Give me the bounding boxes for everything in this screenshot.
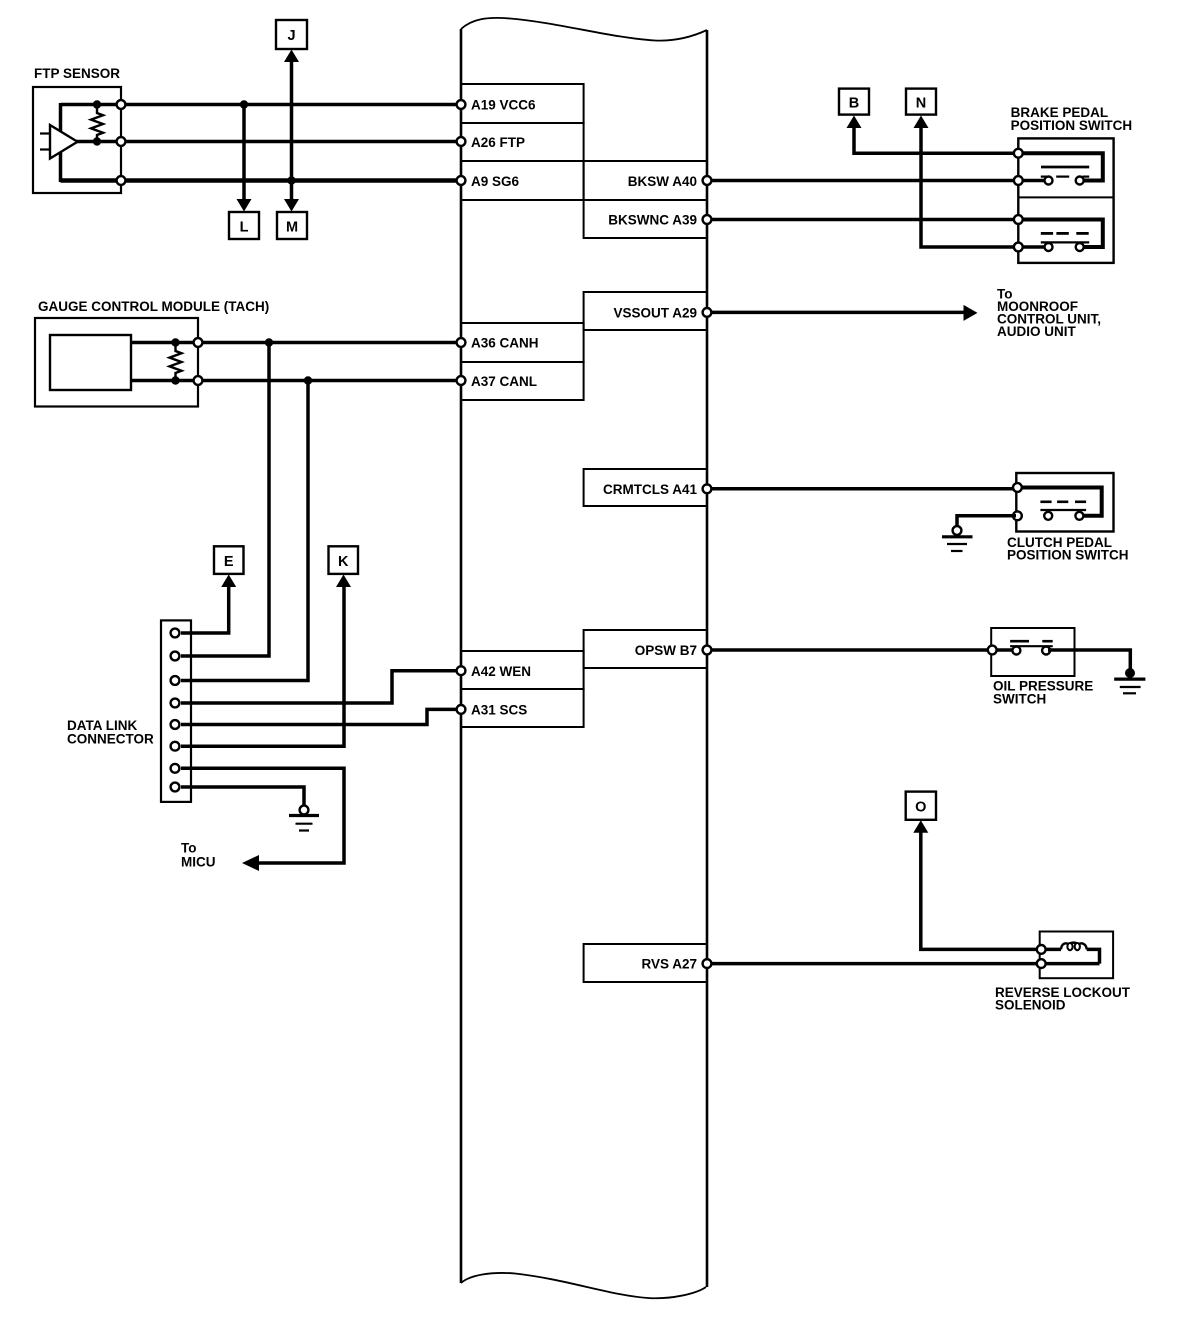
node PCM pin A27 (703, 959, 712, 968)
svg-text:A9 SG6: A9 SG6 (471, 174, 520, 189)
node FTP pin 3 (117, 176, 126, 185)
svg-text:A31 SCS: A31 SCS (471, 703, 527, 718)
junction dot CANL tap (304, 376, 312, 384)
wire connector B to brake switch pin 1 (854, 127, 1016, 153)
wire to connector L (drop from A19) (242, 105, 246, 201)
terminal box BKSWNC A39 (584, 200, 707, 238)
wire A37 CANL (gauge module to PCM) (131, 379, 458, 383)
svg-text:FTP SENSOR: FTP SENSOR (34, 66, 120, 81)
svg-text:J: J (287, 28, 295, 44)
node DLC pin 4 (171, 699, 180, 708)
junction dot CANH tap (265, 338, 273, 346)
svg-text:VSSOUT A29: VSSOUT A29 (613, 306, 697, 321)
terminal box A36 CANH (461, 323, 584, 362)
terminal box A42 WEN (461, 651, 584, 689)
node PCM pin A19 (457, 100, 466, 109)
connector K (329, 546, 359, 587)
connector M (277, 199, 307, 239)
terminal box A9 SG6 (461, 161, 584, 200)
svg-text:To: To (181, 841, 197, 856)
svg-text:A42 WEN: A42 WEN (471, 664, 531, 679)
PCM connector column (torn-edge outline) (461, 18, 707, 1298)
FTP sensor box (33, 66, 121, 193)
svg-text:OPSW B7: OPSW B7 (635, 643, 697, 658)
svg-text:K: K (338, 554, 349, 570)
wire clutch switch pin 2 to ground (957, 516, 1016, 526)
node PCM pin A29 (703, 308, 712, 317)
wire FTP internal supply-to-ground vertical (59, 103, 63, 182)
ground (DLC) (289, 806, 319, 831)
wire CANH tap to DLC pin 2 (181, 343, 269, 657)
wire VSSOUT A29 to moonroof/audio (710, 311, 965, 315)
arrow to moonroof (964, 305, 978, 321)
wire A36 CANH (gauge module to PCM) (131, 341, 458, 345)
label To MICU (181, 841, 216, 870)
node DLC pin 3 (171, 676, 180, 685)
node gauge pin CANL (194, 376, 203, 385)
wire BKSW A40 to brake switch (710, 179, 1046, 183)
connector O (906, 792, 936, 833)
node DLC pin 2 (171, 652, 180, 661)
svg-text:SOLENOID: SOLENOID (995, 998, 1066, 1013)
wire CANL tap to DLC pin 3 (181, 381, 308, 681)
wire A19 VCC6 (FTP sensor to PCM) (61, 103, 459, 107)
svg-text:E: E (224, 554, 234, 570)
node DLC pin 6 (171, 742, 180, 751)
terminal box OPSW B7 (584, 630, 707, 668)
svg-text:A36 CANH: A36 CANH (471, 336, 539, 351)
node PCM pin B7 (703, 646, 712, 655)
wire DLC pin 4 to A42 WEN (181, 671, 458, 703)
node DLC pin 8 (171, 783, 180, 792)
node PCM pin A36 (457, 338, 466, 347)
terminal box BKSW A40 (584, 161, 707, 200)
node PCM pin A26 (457, 137, 466, 146)
node PCM pin A40 (703, 176, 712, 185)
wire DLC pin 6 to connector K (181, 586, 344, 746)
node FTP pin 1 (117, 100, 126, 109)
node DLC pin 7 (171, 764, 180, 773)
connector B (839, 89, 869, 128)
node PCM pin A37 (457, 376, 466, 385)
wire OPSW B7 to oil pressure switch (710, 648, 1014, 652)
wire DLC pin 1 to connector E (181, 586, 229, 633)
wire A9 SG6 (FTP sensor to PCM) (61, 178, 459, 182)
svg-text:L: L (240, 220, 249, 236)
node PCM pin A42 (457, 666, 466, 675)
node PCM pin A39 (703, 215, 712, 224)
svg-text:A19 VCC6: A19 VCC6 (471, 98, 536, 113)
terminal box A31 SCS (461, 689, 584, 727)
node gauge pin CANH (194, 338, 203, 347)
wire DLC pin 5 to A31 SCS (181, 709, 458, 724)
svg-text:SWITCH: SWITCH (993, 692, 1046, 707)
resistor R (FTP internal) (91, 100, 103, 145)
reverse lockout solenoid (995, 932, 1131, 1013)
resistor R (gauge CAN termination) (170, 338, 182, 384)
wire connector N to brake switch pin 4 (921, 127, 1046, 247)
junction dot J/M on A9 wire (287, 176, 295, 184)
svg-text:N: N (916, 96, 926, 112)
arrow To MICU (242, 855, 259, 871)
svg-text:MICU: MICU (181, 855, 216, 870)
node DLC pin 1 (171, 629, 180, 638)
wire BKSWNC A39 to brake switch (710, 218, 1016, 222)
svg-text:CONNECTOR: CONNECTOR (67, 732, 154, 747)
op-amp U (FTP sensor amplifier) (40, 125, 78, 159)
svg-text:O: O (915, 800, 926, 816)
terminal box A19 VCC6 (461, 84, 584, 123)
oil pressure switch (988, 628, 1093, 707)
svg-text:CRMTCLS A41: CRMTCLS A41 (603, 482, 697, 497)
terminal box RVS A27 (584, 944, 707, 982)
svg-text:M: M (286, 220, 298, 236)
node PCM pin A41 (703, 484, 712, 493)
svg-text:GAUGE CONTROL MODULE (TACH): GAUGE CONTROL MODULE (TACH) (38, 299, 269, 314)
svg-text:BKSWNC A39: BKSWNC A39 (608, 213, 697, 228)
wire A26 FTP (op-amp output to PCM) (76, 140, 458, 144)
svg-text:A26 FTP: A26 FTP (471, 135, 525, 150)
svg-text:POSITION SWITCH: POSITION SWITCH (1011, 118, 1133, 133)
clutch pedal position switch (1007, 473, 1129, 563)
connector N (906, 89, 936, 128)
gauge control module box (35, 299, 269, 407)
svg-text:B: B (849, 96, 859, 112)
terminal box CRMTCLS A41 (584, 469, 707, 506)
terminal box VSSOUT A29 (584, 292, 707, 330)
svg-text:AUDIO UNIT: AUDIO UNIT (997, 324, 1076, 339)
wire RVS A27 to solenoid (710, 962, 1100, 966)
connector E (214, 546, 244, 587)
node PCM pin A31 (457, 705, 466, 714)
wire oil pressure switch to ground (1048, 650, 1130, 670)
node DLC pin 5 (171, 720, 180, 729)
ground (oil pressure switch) (1114, 668, 1145, 693)
label To MOONROOF CONTROL UNIT, AUDIO UNIT (997, 287, 1101, 340)
wire DLC pin 8 to ground (181, 787, 304, 805)
ground (clutch switch) (942, 526, 973, 551)
data link connector box (67, 620, 191, 802)
connector L (229, 199, 259, 239)
brake pedal position switch (1011, 105, 1133, 263)
node FTP pin 2 (117, 137, 126, 146)
connector J (276, 20, 307, 62)
wire connector O to solenoid (921, 832, 1039, 949)
terminal box A37 CANL (461, 362, 584, 400)
node PCM pin A9 (457, 176, 466, 185)
svg-text:POSITION SWITCH: POSITION SWITCH (1007, 548, 1129, 563)
junction dot L on A19 wire (240, 100, 248, 108)
svg-text:A37 CANL: A37 CANL (471, 374, 537, 389)
terminal box A26 FTP (461, 123, 584, 161)
svg-text:BKSW A40: BKSW A40 (628, 174, 697, 189)
wire CRMTCLS A41 to clutch switch (710, 487, 1016, 491)
svg-text:RVS A27: RVS A27 (641, 957, 697, 972)
wire connectors J/M vertical (taps A9 SG6) (290, 59, 294, 200)
wire DLC pin 7 to MICU (181, 768, 344, 863)
